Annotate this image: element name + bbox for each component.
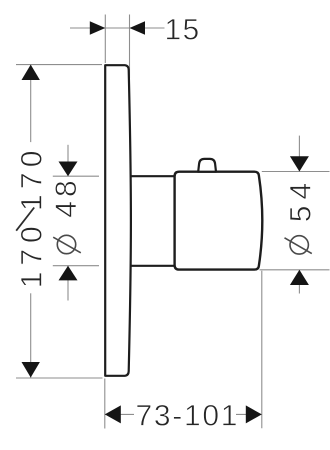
stem lower line [130,265,175,267]
dim 170/170: upper line segment [30,65,32,143]
dim diameter48: top arrow [59,162,78,177]
svg-text:73-101: 73-101 [136,399,240,432]
dim 73-101: left extension line [104,379,106,429]
dim 15: right arrow [130,21,146,34]
dim 170/170: top arrow [22,65,40,80]
dim 73-101: right extension line [261,271,263,429]
thermostat knob body [175,172,263,270]
dim diameter48: lower line segment [67,266,69,301]
dim 73-101: right line segment [236,413,262,415]
dim 170/170: lower line segment [30,293,32,378]
dim diameter54: lower line segment [298,270,300,294]
dim 15: right extension line [129,15,131,79]
svg-text:170: 170 [15,151,48,212]
dim 170/170: bottom arrow [22,362,40,378]
escutcheon plate (side view) [105,65,131,376]
dim diameter54: top arrow [290,156,309,171]
dim 170/170: bottom tick [16,377,103,379]
dim diameter48: bottom arrow [59,266,78,281]
svg-text:15: 15 [165,13,201,46]
dim diameter48: diameter symbol slash [53,237,81,253]
dim diameter54: diameter symbol circle [290,236,308,254]
dim 73-101: right arrow [246,405,262,423]
dim diameter54: bottom arrow [290,270,309,285]
dim 170/170: top tick [16,64,102,66]
dim 170/170: slash [16,208,34,231]
stem upper line [130,175,175,177]
dim diameter48: upper line segment [67,145,69,176]
dim diameter54: diameter symbol slash [285,238,312,254]
dim diameter54: upper line segment [298,136,300,172]
dim 15: left extension line [104,15,106,64]
svg-text:170: 170 [15,226,48,288]
dim diameter48: top tick [53,175,99,177]
dim 15: dimension line [70,27,165,29]
safety button on knob [198,159,216,172]
dim diameter48: diameter symbol circle [57,235,75,253]
dim diameter54: bottom tick [260,269,330,271]
dim diameter48: bottom tick [53,265,99,267]
dim 73-101: left line segment [105,413,134,415]
dim 73-101: left arrow [105,405,121,423]
dim diameter54: top tick [262,171,330,173]
dim 15: left arrow [90,21,106,34]
